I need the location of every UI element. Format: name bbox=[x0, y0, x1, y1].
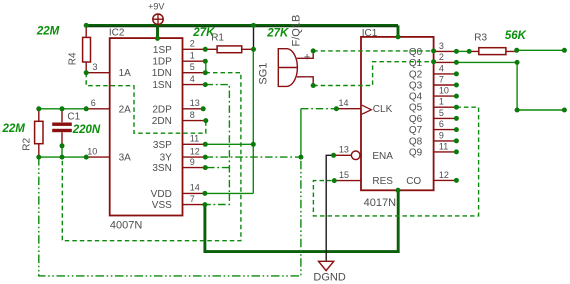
svg-text:2DN: 2DN bbox=[152, 116, 172, 127]
svg-text:2DP: 2DP bbox=[152, 104, 172, 115]
svg-text:DGND: DGND bbox=[313, 272, 345, 284]
svg-text:1DP: 1DP bbox=[152, 57, 172, 68]
wire rail to IC1 top bbox=[397, 25, 400, 37]
svg-text:Q3: Q3 bbox=[409, 81, 423, 92]
svg-text:3A: 3A bbox=[119, 153, 132, 164]
IC1 left pin stubs bbox=[334, 109, 361, 181]
svg-text:1A: 1A bbox=[119, 68, 132, 79]
svg-text:11: 11 bbox=[190, 134, 199, 144]
svg-text:CLK: CLK bbox=[373, 104, 393, 115]
svg-text:9: 9 bbox=[439, 130, 444, 140]
capacitor C1 bbox=[61, 109, 63, 146]
svg-text:15: 15 bbox=[339, 170, 349, 180]
svg-text:VSS: VSS bbox=[152, 200, 172, 211]
wire rail to R1 right black bbox=[253, 27, 255, 50]
svg-text:1SP: 1SP bbox=[153, 45, 172, 56]
wire net 1A-2DN dashed bbox=[86, 73, 206, 134]
svg-text:1: 1 bbox=[439, 97, 444, 107]
wire C1 bottom join bbox=[61, 146, 63, 157]
wire Q1 right bbox=[456, 61, 517, 63]
wire rail to IC2 top bbox=[156, 25, 159, 38]
svg-text:8: 8 bbox=[190, 110, 195, 120]
resistor R2 bbox=[38, 109, 40, 157]
wire VDD pin 14 bbox=[205, 192, 253, 194]
svg-text:220N: 220N bbox=[72, 124, 101, 136]
svg-text:2A: 2A bbox=[119, 104, 132, 115]
svg-text:ENA: ENA bbox=[372, 151, 393, 162]
wire R2 top to pin 6 bbox=[39, 108, 86, 110]
svg-text:22M: 22M bbox=[36, 26, 60, 38]
svg-text:R2: R2 bbox=[22, 137, 33, 150]
svg-text:56K: 56K bbox=[505, 30, 527, 42]
wire net SG1- to Q1 dashed bbox=[313, 62, 433, 86]
svg-text:2: 2 bbox=[190, 39, 195, 49]
wire net 3Y to junction dashdot bbox=[206, 156, 301, 158]
svg-text:10: 10 bbox=[439, 86, 449, 96]
svg-text:14: 14 bbox=[339, 98, 349, 108]
svg-text:27K: 27K bbox=[266, 28, 289, 40]
wire net SG1+ to Q0 dashed bbox=[313, 50, 433, 52]
svg-text:R4: R4 bbox=[68, 52, 79, 65]
svg-text:22M: 22M bbox=[2, 123, 26, 135]
wire VSS ground path bbox=[205, 190, 398, 251]
buzzer SG1 bbox=[278, 49, 313, 87]
svg-text:+9V: +9V bbox=[148, 2, 164, 12]
svg-text:F/Q1B: F/Q1B bbox=[291, 15, 303, 47]
svg-text:Q7: Q7 bbox=[409, 125, 423, 136]
wire junction to CLK dashdot bbox=[301, 108, 337, 110]
svg-text:R3: R3 bbox=[474, 33, 487, 44]
svg-text:9: 9 bbox=[190, 157, 195, 167]
svg-text:+: + bbox=[304, 52, 310, 64]
wire net Q5 to RES dashed bbox=[313, 107, 478, 216]
svg-text:7: 7 bbox=[439, 74, 444, 84]
wire net 3SN dashdot bbox=[206, 167, 230, 169]
svg-text:5: 5 bbox=[439, 108, 444, 118]
svg-text:1: 1 bbox=[190, 50, 195, 60]
wire pin 11 to vertical bbox=[205, 143, 253, 145]
wire +9V rail bbox=[86, 24, 398, 27]
wire Q0 to R3 bbox=[456, 50, 469, 52]
wire ENA to DGND black bbox=[326, 155, 333, 260]
svg-text:1DN: 1DN bbox=[152, 68, 172, 79]
wire Q1 down bbox=[516, 62, 518, 110]
IC IC1 box 4017N bbox=[361, 37, 434, 190]
IC1 right pin stubs bbox=[434, 51, 456, 180]
resistor R3 bbox=[469, 50, 517, 52]
wire net 1SN dashdot bbox=[206, 85, 230, 194]
svg-text:10: 10 bbox=[87, 146, 97, 156]
svg-text:IC1: IC1 bbox=[362, 28, 378, 39]
svg-text:C1: C1 bbox=[67, 111, 80, 122]
ground DGND symbol bbox=[319, 261, 334, 270]
resistor R4 bbox=[85, 25, 87, 72]
svg-text:3Y: 3Y bbox=[160, 153, 173, 164]
wire net R2 to CLK junction dashdotdot bbox=[39, 157, 301, 276]
svg-text:13: 13 bbox=[339, 145, 349, 155]
wire net 1DN-C1 dashed bbox=[62, 73, 241, 241]
wire R3 out bbox=[517, 49, 565, 51]
svg-text:7: 7 bbox=[190, 194, 195, 204]
svg-text:3: 3 bbox=[93, 62, 98, 72]
wire R1 right down to VDD bbox=[252, 49, 254, 193]
svg-text:4: 4 bbox=[190, 74, 195, 84]
IC2 left pin stubs bbox=[86, 73, 110, 157]
IC1 CLK triangle bbox=[362, 105, 371, 114]
svg-text:3SN: 3SN bbox=[152, 163, 171, 174]
svg-text:11: 11 bbox=[439, 141, 448, 151]
svg-text:27K: 27K bbox=[192, 27, 215, 39]
IC1 ENA bubble bbox=[351, 151, 360, 160]
svg-text:3SP: 3SP bbox=[153, 140, 172, 151]
IC2 right pin stubs bbox=[183, 49, 206, 204]
wire R2 bottom to pin 10 bbox=[39, 156, 86, 158]
IC IC2 box 4007N bbox=[110, 38, 183, 215]
svg-text:Q2: Q2 bbox=[409, 69, 423, 80]
svg-text:Q8: Q8 bbox=[409, 136, 423, 147]
svg-text:6: 6 bbox=[91, 98, 96, 108]
svg-text:4017N: 4017N bbox=[364, 197, 396, 209]
svg-text:3: 3 bbox=[439, 41, 444, 51]
svg-text:4007N: 4007N bbox=[110, 220, 142, 232]
svg-text:6: 6 bbox=[439, 119, 444, 129]
svg-text:12: 12 bbox=[439, 170, 449, 180]
svg-text:VDD: VDD bbox=[151, 189, 172, 200]
svg-text:Q0: Q0 bbox=[409, 47, 423, 58]
svg-text:IC2: IC2 bbox=[109, 27, 125, 38]
svg-text:5: 5 bbox=[190, 62, 195, 72]
wire CLK vertical bbox=[300, 109, 302, 157]
svg-text:13: 13 bbox=[190, 98, 200, 108]
power +9V symbol bbox=[153, 14, 163, 24]
svg-text:Q9: Q9 bbox=[409, 147, 423, 158]
svg-text:-: - bbox=[305, 71, 309, 83]
svg-text:CO: CO bbox=[406, 176, 421, 187]
svg-text:Q4: Q4 bbox=[409, 92, 423, 103]
svg-text:1SN: 1SN bbox=[152, 80, 171, 91]
wire Q1 end bbox=[517, 109, 564, 111]
svg-text:2: 2 bbox=[439, 52, 444, 62]
svg-text:Q5: Q5 bbox=[409, 103, 423, 114]
svg-text:14: 14 bbox=[190, 183, 200, 193]
svg-text:4: 4 bbox=[439, 63, 444, 73]
resistor R1 bbox=[205, 48, 253, 50]
svg-text:12: 12 bbox=[190, 146, 200, 156]
svg-text:Q1: Q1 bbox=[409, 58, 423, 69]
svg-text:Q6: Q6 bbox=[409, 114, 423, 125]
wire pin 1 to pin 5 tie bbox=[205, 61, 207, 72]
svg-text:RES: RES bbox=[372, 176, 393, 187]
svg-text:SG1: SG1 bbox=[258, 63, 270, 85]
